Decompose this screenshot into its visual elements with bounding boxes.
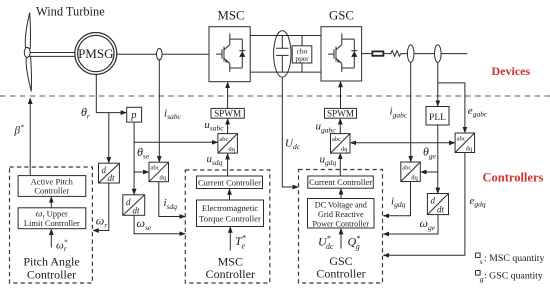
svg-text:igabc: igabc (390, 106, 408, 120)
beta* wire (29, 98, 31, 175)
svg-text:isabc: isabc (164, 107, 181, 121)
svg-text:abc: abc (402, 164, 411, 171)
svg-text:MSC: MSC (217, 9, 244, 23)
abc/dq e-transform grid (455, 133, 475, 153)
omega_ge wire (384, 215, 438, 234)
i_gabc wire (410, 62, 412, 161)
GSC IGBT with diode (328, 33, 357, 72)
PLL feed wire (437, 62, 439, 106)
svg-text:Current Controller: Current Controller (309, 177, 372, 187)
d/dt box stator electrical speed (123, 195, 145, 216)
SPWM box MSC (211, 108, 244, 118)
u_gabc wire (339, 119, 341, 134)
svg-text:dq: dq (341, 146, 348, 153)
voltage sensor ellipse around capacitor (274, 31, 291, 78)
svg-text:Controller: Controller (206, 267, 255, 281)
svg-text:dq: dq (411, 174, 418, 181)
d/dt box grid electrical speed (427, 194, 448, 215)
theta_ge branch to e-transform (438, 142, 455, 144)
svg-text:ugabc: ugabc (316, 121, 337, 135)
arrow DC voltage to current controller (340, 189, 342, 199)
svg-text:Udc: Udc (285, 137, 301, 151)
dc link capacitor (276, 36, 289, 73)
grid inductor (372, 51, 383, 55)
grid wire (362, 53, 468, 55)
svg-text:θr: θr (81, 105, 90, 121)
svg-text:U*dc: U*dc (318, 234, 334, 251)
separator dashed line (0, 95, 550, 97)
U_dc wire (282, 77, 298, 187)
voltage sensor VT (435, 45, 442, 62)
abc/dq u-transform grid (331, 134, 351, 154)
shaft (31, 53, 76, 57)
svg-text:Q*g: Q*g (348, 234, 361, 251)
upper limit controller box (18, 208, 86, 229)
arrow torque to current controller (229, 189, 231, 200)
current sensor CT1 (157, 49, 163, 60)
svg-text:Torque Controller: Torque Controller (199, 213, 261, 223)
svg-text:Controller: Controller (316, 267, 365, 281)
svg-text:d: d (126, 197, 131, 207)
svg-text:ugdq: ugdq (320, 153, 337, 167)
svg-text:SPWM: SPWM (327, 108, 354, 118)
abc/dq u-transform stator (218, 134, 238, 154)
svg-text:usabc: usabc (204, 119, 224, 133)
svg-text:: MSC quantity: : MSC quantity (484, 253, 545, 264)
SPWM to GSC arrow (340, 82, 342, 109)
u_sabc wire (227, 119, 229, 134)
omega_r wire (93, 183, 109, 231)
svg-text:dt: dt (133, 205, 141, 215)
abc/dq i-transform stator (149, 162, 169, 182)
svg-text:PLL: PLL (429, 113, 446, 123)
dc link bottom rail (250, 71, 321, 73)
svg-text:dt: dt (108, 173, 116, 183)
svg-text:θge: θge (423, 145, 437, 161)
svg-text:egabc: egabc (468, 105, 488, 119)
theta_se wire from p (133, 122, 135, 194)
generator PMSG (75, 33, 117, 75)
svg-text:Power Controller: Power Controller (312, 219, 369, 228)
svg-text:ωse: ωse (137, 216, 152, 232)
SPWM box GSC (325, 108, 357, 118)
pitch angle controller dashed box (10, 167, 93, 283)
svg-text:dq: dq (228, 146, 235, 153)
svg-text:ωr: ωr (96, 214, 107, 230)
svg-text:abc: abc (219, 136, 228, 143)
SPWM to MSC arrow (227, 82, 229, 108)
e_gdq wire (384, 153, 465, 256)
svg-text:dt: dt (437, 204, 445, 214)
svg-text:: GSC quantity: : GSC quantity (484, 271, 543, 282)
u_sdq wire (227, 154, 229, 176)
svg-text:ω*r: ω*r (56, 238, 68, 254)
svg-text:usdq: usdq (207, 153, 223, 167)
theta_ge branch to i-transform grid (421, 171, 438, 173)
stator wire (117, 53, 209, 55)
MSC IGBT with diode (216, 33, 245, 72)
svg-text:isdq: isdq (164, 197, 178, 211)
svg-text:abc: abc (457, 135, 466, 142)
svg-text:s: s (480, 257, 483, 266)
svg-text:β*: β* (14, 123, 24, 137)
svg-text:egdq: egdq (470, 195, 486, 209)
Te* input arrow (229, 227, 231, 250)
i_gdq wire (384, 182, 411, 216)
svg-text:T*e: T*e (235, 234, 246, 251)
electromagnetic torque controller (197, 200, 264, 227)
dc link top rail (250, 35, 321, 37)
current sensor CT2 (407, 45, 414, 62)
svg-text:θse: θse (137, 145, 150, 161)
svg-text:igdq: igdq (391, 195, 406, 209)
chopper (292, 36, 312, 73)
abc/dq i-transform grid (401, 162, 421, 182)
svg-text:pper: pper (295, 54, 309, 63)
svg-text:dq: dq (160, 175, 167, 182)
theta_ge branch to u-transform grid (351, 142, 438, 144)
converter MSC box (209, 27, 250, 82)
legend GSC quantity (476, 271, 543, 284)
svg-text:Controller: Controller (27, 267, 76, 281)
omega_r* input arrow (50, 229, 52, 247)
svg-text:GSC: GSC (329, 9, 354, 23)
svg-text:DC Voltage and: DC Voltage and (315, 200, 367, 209)
theta_se branch to i-transform (134, 171, 148, 173)
rotor angle wire theta_r (96, 74, 126, 112)
i_sabc wire (158, 60, 160, 162)
wind turbine blades (25, 13, 31, 92)
omega_se wire (134, 215, 185, 233)
svg-text:abc: abc (151, 165, 160, 172)
svg-text:Current Controller: Current Controller (198, 177, 261, 187)
svg-text:Wind Turbine: Wind Turbine (36, 4, 105, 18)
MSC controller dashed box (185, 170, 269, 283)
DC voltage and grid reactive power controller (308, 199, 375, 229)
PLL box (426, 107, 449, 126)
svg-text:Electromagnetic: Electromagnetic (202, 203, 258, 213)
grid resistor zigzag (390, 51, 403, 57)
e_gabc branch wire (438, 83, 465, 133)
svg-text:Controller: Controller (34, 186, 69, 196)
theta_ge wire down from PLL (437, 125, 439, 193)
svg-text:PMSG: PMSG (78, 46, 113, 61)
active pitch controller box (18, 176, 86, 197)
svg-text:d: d (431, 196, 436, 206)
GSC controller dashed box (299, 170, 383, 284)
current controller GSC (308, 176, 374, 188)
theta_se branch to u-transform (134, 141, 217, 143)
svg-text:dq: dq (466, 145, 473, 152)
p box (127, 107, 142, 122)
arrow upper limit to active pitch (50, 197, 52, 208)
svg-text:p: p (130, 110, 136, 121)
current controller MSC (197, 176, 263, 189)
svg-text:Devices: Devices (492, 64, 531, 78)
legend MSC quantity (476, 253, 545, 266)
svg-text:SPWM: SPWM (214, 108, 241, 118)
i_sdq wire (159, 182, 185, 217)
svg-text:d: d (102, 165, 107, 175)
d/dt box rotor speed (99, 163, 120, 183)
u_gdq wire (339, 154, 341, 176)
svg-text:Limit Controller: Limit Controller (24, 218, 80, 228)
svg-text:Controllers: Controllers (483, 171, 544, 185)
svg-text:Grid Reactive: Grid Reactive (318, 210, 364, 219)
svg-text:ωge: ωge (420, 216, 436, 232)
svg-text:abc: abc (332, 136, 341, 143)
wire junction to d/dt (108, 113, 110, 163)
turbine hub (24, 47, 30, 57)
Udc* Qg* input arrow (340, 229, 342, 249)
converter GSC box (321, 27, 362, 81)
